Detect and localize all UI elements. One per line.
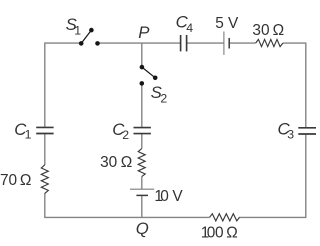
svg-text:1: 1 <box>74 23 81 37</box>
svg-text:5: 5 <box>215 15 224 32</box>
svg-text:30: 30 <box>100 154 117 171</box>
svg-text:3: 3 <box>287 128 294 142</box>
svg-text:V: V <box>228 15 239 32</box>
svg-text:Ω: Ω <box>226 225 238 242</box>
svg-text:0: 0 <box>215 225 224 242</box>
svg-text:0: 0 <box>160 188 169 205</box>
svg-text:P: P <box>138 23 150 42</box>
svg-text:1: 1 <box>25 128 32 142</box>
svg-text:Q: Q <box>136 219 149 238</box>
svg-text:2: 2 <box>122 128 129 142</box>
svg-text:Ω: Ω <box>121 154 133 171</box>
svg-text:2: 2 <box>160 92 167 106</box>
svg-text:Ω: Ω <box>20 172 32 189</box>
svg-text:0: 0 <box>207 225 216 242</box>
svg-text:4: 4 <box>186 21 193 35</box>
svg-text:Ω: Ω <box>273 22 285 39</box>
svg-text:30: 30 <box>252 22 269 39</box>
svg-text:70: 70 <box>0 172 17 189</box>
svg-text:V: V <box>172 188 183 205</box>
